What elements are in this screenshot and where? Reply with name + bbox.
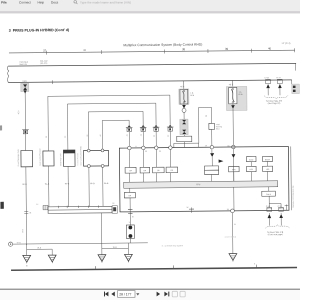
- svg-text:40: 40: [268, 46, 272, 50]
- svg-text:4E 7: 4E 7: [229, 83, 233, 86]
- svg-text:Door Lock Control Relay: Door Lock Control Relay: [79, 146, 82, 165]
- svg-text:W–B: W–B: [45, 183, 50, 186]
- svg-text:W–B: W–B: [22, 183, 27, 186]
- svg-text:3 PRIUS PLUG-IN HYBRID (Cont’: 3 PRIUS PLUG-IN HYBRID (Cont’ d): [9, 28, 69, 33]
- svg-text:Front Passenger Side: Front Passenger Side: [17, 149, 20, 166]
- svg-text:∗ : w/ Smart Key System: ∗ : w/ Smart Key System: [161, 244, 183, 247]
- svg-text:37: 37: [43, 49, 47, 53]
- svg-text:Multiplex Communication Sys: Multiplex Communication Sys: [292, 185, 295, 207]
- svg-text:28 / 177: 28 / 177: [119, 293, 131, 297]
- svg-text:Connect: Connect: [19, 1, 31, 5]
- svg-text:CPU: CPU: [196, 183, 201, 186]
- svg-text:Bus Line: Bus Line: [20, 63, 27, 66]
- svg-text:39: 39: [225, 47, 229, 51]
- svg-text:W–B: W–B: [90, 182, 95, 185]
- svg-text:Noise: Noise: [249, 158, 253, 161]
- svg-text:C/ 14: C/ 14: [276, 76, 280, 79]
- svg-text:4E 8: 4E 8: [17, 111, 20, 115]
- svg-text:1L: 1L: [135, 145, 137, 148]
- svg-text:W–B: W–B: [65, 182, 70, 185]
- svg-text:Help: Help: [38, 1, 45, 5]
- svg-text:38: 38: [182, 47, 186, 51]
- svg-text:Multiplex Communication System: Multiplex Communication System (Body Con…: [123, 42, 202, 47]
- svg-text:Door Control Receiver: Door Control Receiver: [38, 148, 41, 166]
- svg-text:38: 38: [83, 49, 87, 52]
- svg-text:Docs: Docs: [51, 1, 59, 5]
- svg-text:GM4: GM4: [22, 80, 26, 83]
- svg-text:(Cont’d 4 [2C]): (Cont’d 4 [2C]): [225, 235, 237, 238]
- svg-text:1J: 1J: [36, 203, 38, 206]
- svg-text:Buzzer: Buzzer: [265, 158, 271, 161]
- svg-text:(Cont. next page): (Cont. next page): [268, 233, 283, 236]
- svg-text:LY (2/ 4): LY (2/ 4): [282, 42, 291, 45]
- svg-text:1J: 1J: [129, 221, 131, 224]
- svg-text:File: File: [1, 1, 7, 5]
- svg-text:W–B: W–B: [104, 182, 109, 185]
- svg-text:Type the model name and frame: Type the model name and frame (VIN): [80, 0, 131, 4]
- svg-text:(See Page 22): (See Page 22): [268, 102, 281, 105]
- svg-text:(3E–3G): (3E–3G): [40, 62, 48, 65]
- svg-text:Smart Key Unit *: Smart Key Unit *: [59, 153, 62, 166]
- svg-text:C/ 08: C/ 08: [264, 76, 268, 79]
